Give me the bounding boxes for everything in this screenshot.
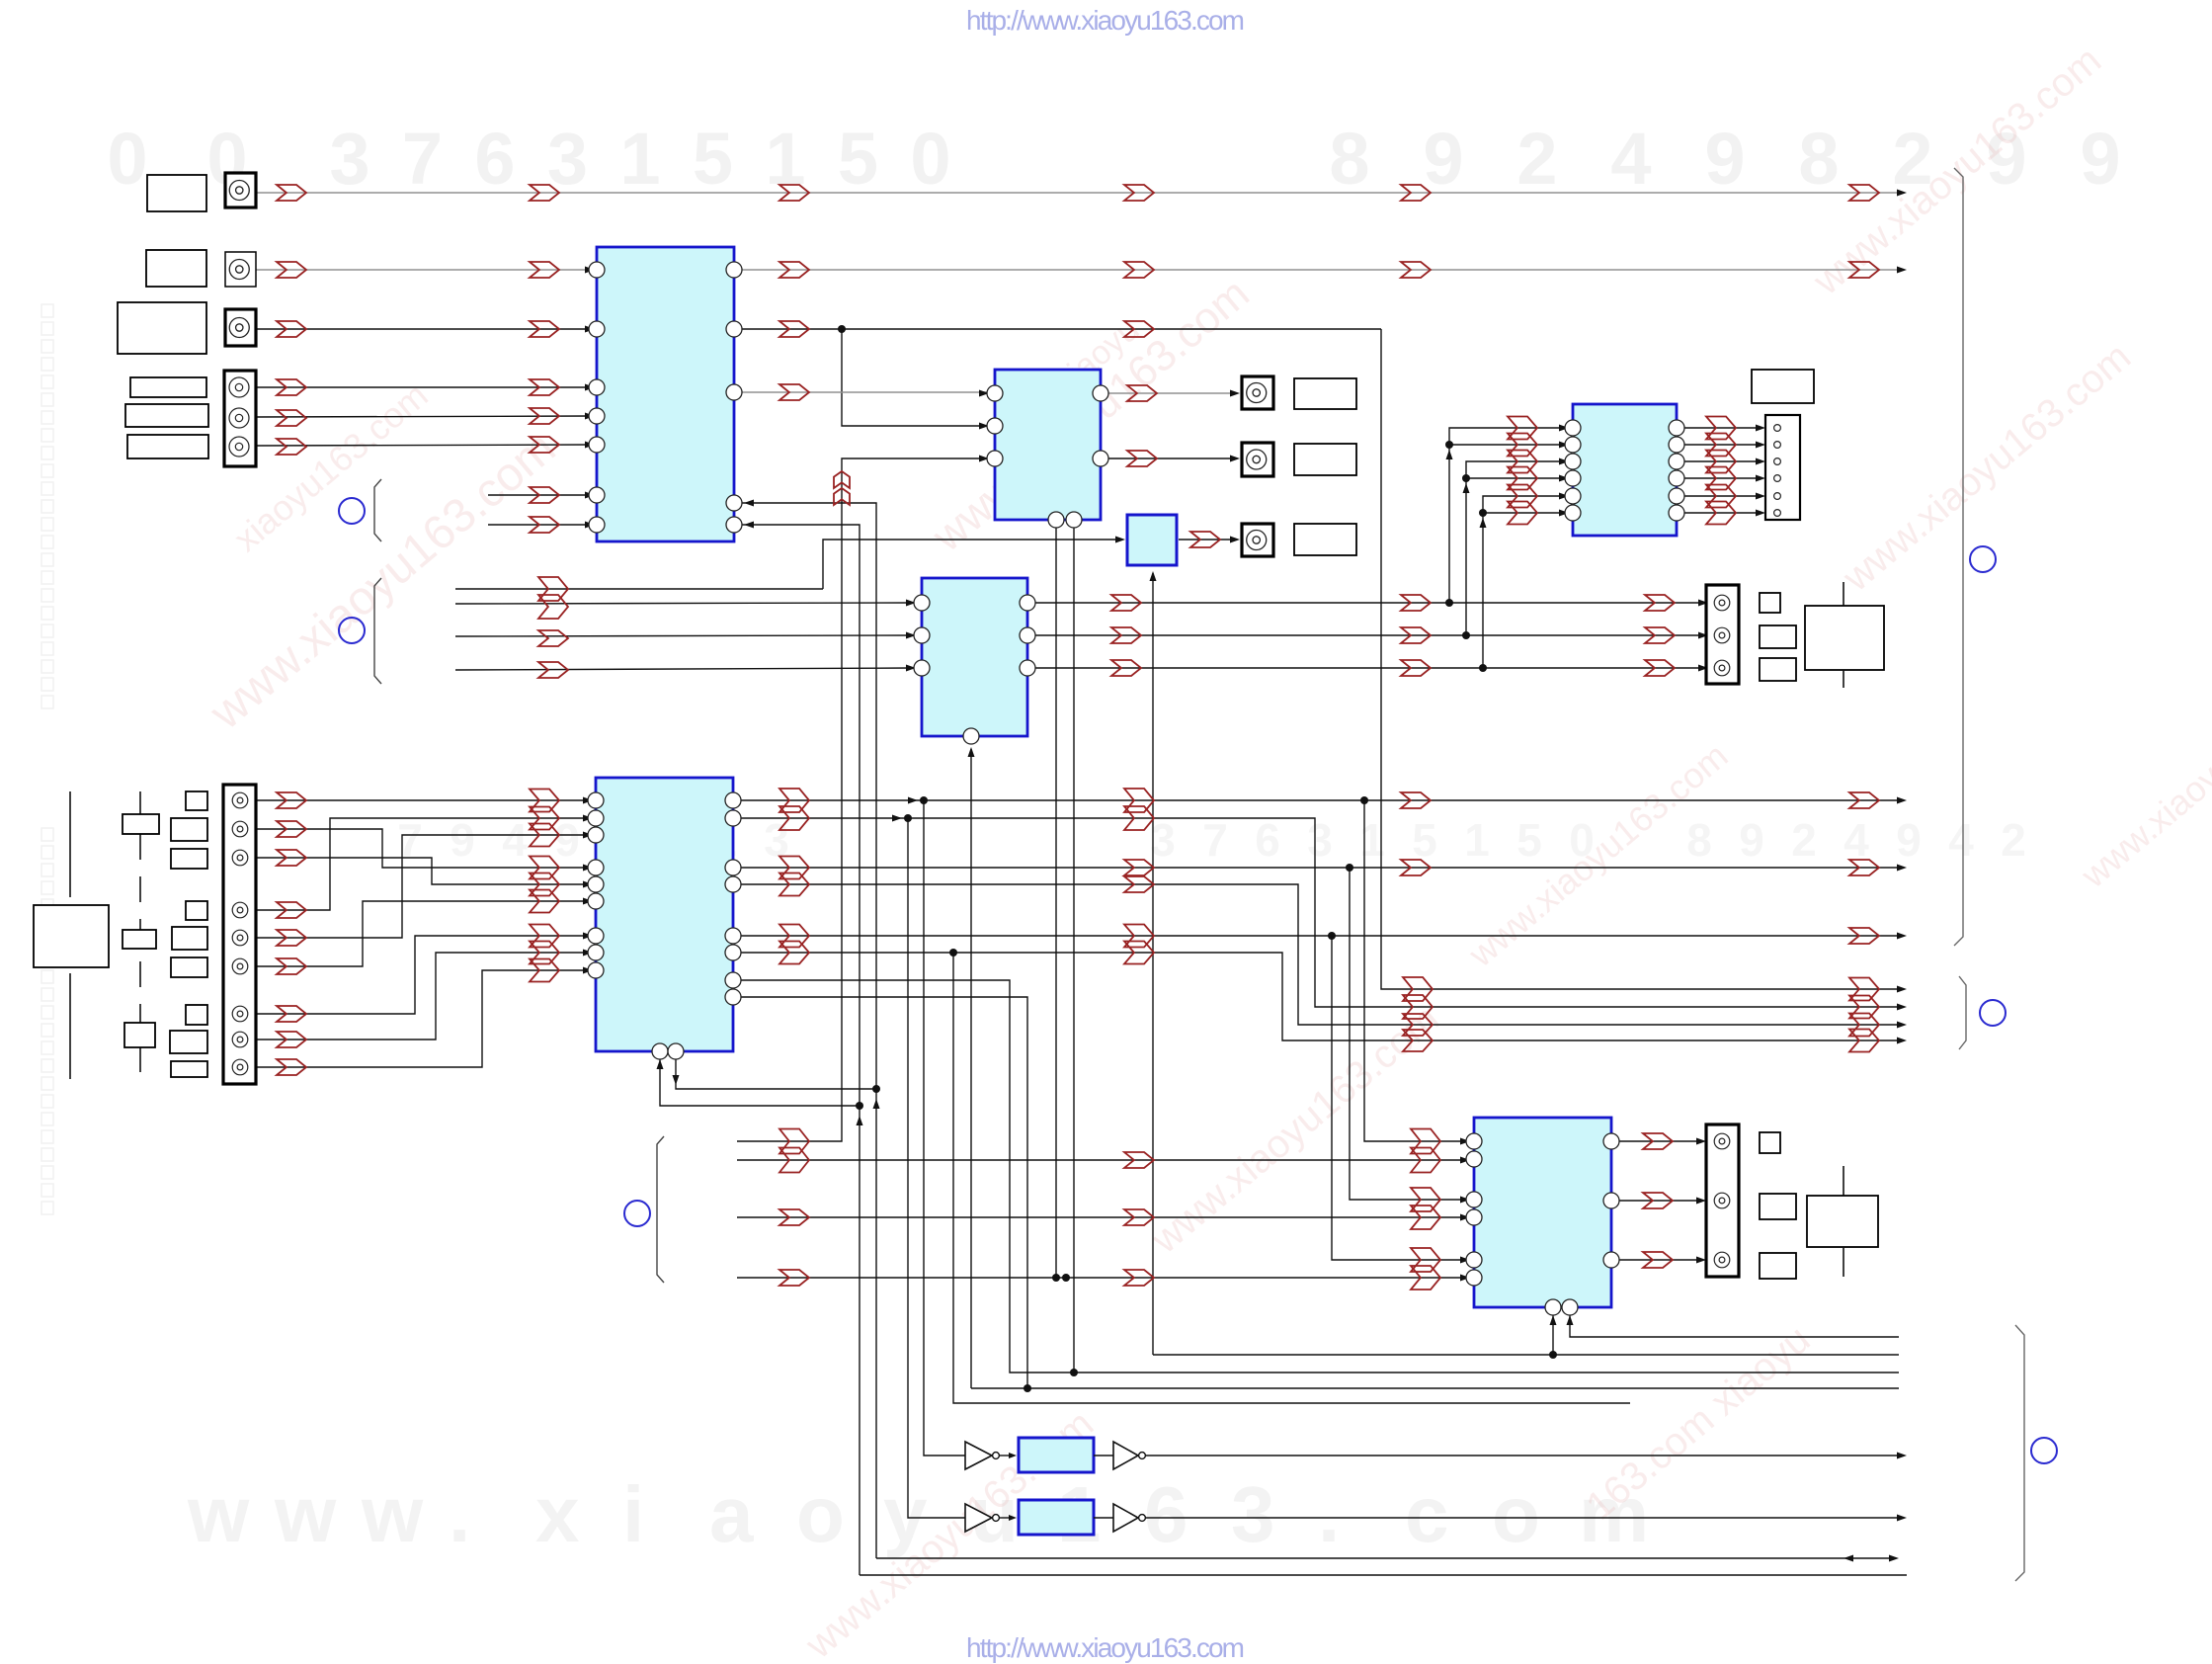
connector block CN (9 RCA) <box>223 785 256 1084</box>
svg-text:5: 5 <box>1412 814 1437 866</box>
chevrons into IC7 x1428 <box>1411 1129 1440 1154</box>
chevrons column mid rails (x545) <box>538 577 568 601</box>
inverter pair row1 <box>965 1442 992 1469</box>
jack J1 <box>225 173 256 208</box>
delay block 1 <box>1019 1438 1094 1472</box>
wire IC2 out bottom to jack <box>1108 458 1232 459</box>
wire IC7 input rails <box>737 1159 1464 1161</box>
chevrons before RCA group1 x1667 <box>1645 595 1675 611</box>
svg-text:9: 9 <box>1423 118 1463 200</box>
RCA group2 block <box>1706 1124 1739 1277</box>
white rect above terminal strip <box>1752 370 1814 403</box>
chevrons on IC3-right rails x1418 and x1125 <box>1401 595 1431 611</box>
svg-text:7: 7 <box>1202 814 1228 866</box>
connector ref A <box>339 498 365 524</box>
wire IC4 bottom pin links <box>660 1059 860 1106</box>
svg-text:9: 9 <box>2080 118 2120 200</box>
svg-text:3: 3 <box>1150 814 1176 866</box>
chevrons right end column x1875 <box>1849 185 1879 201</box>
label box row1 <box>147 175 206 211</box>
wire row3 out of IC1 to corner <box>742 328 1381 330</box>
jack J2 <box>225 252 256 287</box>
inverter pair row2 <box>965 1504 992 1532</box>
wire rail 1001 from x1398 vertical <box>1381 329 1899 989</box>
connector ref B <box>339 618 365 643</box>
wire rail y644 to IC3 <box>455 635 912 636</box>
wire rail y678 to IC3 <box>455 668 912 670</box>
svg-text:8: 8 <box>1686 814 1712 866</box>
jack J3 <box>225 309 256 346</box>
wire bottom rails 1577 1594 <box>876 1557 1889 1559</box>
svg-text:3: 3 <box>1307 814 1333 866</box>
svg-text:w: w <box>274 1470 337 1558</box>
delay block 2 <box>1019 1500 1094 1535</box>
wire row1 gray rail <box>256 192 1899 194</box>
small rects column A <box>123 814 159 834</box>
wire IC1 pin509 elbow down x887 <box>742 503 876 1558</box>
svg-text:4: 4 <box>1843 814 1869 866</box>
svg-text:9: 9 <box>1704 118 1745 200</box>
svg-text:http://www.xiaoyu163.com: http://www.xiaoyu163.com <box>966 1632 1245 1663</box>
watermark gray vertical chinese columns far left <box>41 304 53 708</box>
svg-text:a: a <box>709 1470 754 1558</box>
wire IC6 feeders <box>1449 428 1563 603</box>
chevrons IC7 out x1665 <box>1643 1133 1673 1149</box>
wire row2 gray: jack to IC1 <box>256 269 591 271</box>
terminal strip right of IC6 <box>1765 415 1800 520</box>
chevrons into IC6 x1526 <box>1508 417 1537 440</box>
wire branch row3 to IC2 pin2 <box>842 329 987 426</box>
svg-text:2: 2 <box>2001 814 2026 866</box>
wire IC6 outputs to terminal strip <box>1684 427 1758 429</box>
wire IC4 right rails <box>741 799 1899 801</box>
wire feeders to inverters <box>908 818 965 1518</box>
wire IC3 right rails to RCA group1 <box>1035 602 1700 604</box>
IC U1 <box>597 247 734 541</box>
svg-text:9: 9 <box>1739 814 1764 866</box>
small rects column B <box>186 791 207 810</box>
label box row3 <box>118 302 206 354</box>
connector ref E <box>1980 1000 2006 1026</box>
wire RCA group1 to IC1 pins <box>256 386 591 388</box>
connector ref C <box>624 1201 650 1226</box>
svg-text:1: 1 <box>1464 814 1490 866</box>
jacks right of IC2 <box>1242 376 1273 409</box>
svg-text:5: 5 <box>838 118 878 200</box>
braces and page connectors <box>374 479 381 541</box>
label box row2 <box>146 250 206 287</box>
svg-text:0: 0 <box>107 118 147 200</box>
svg-text:3: 3 <box>1231 1470 1275 1558</box>
wire IC4 inputs from connector with jogs <box>256 799 589 801</box>
wire row3 jack to IC1 <box>256 328 591 330</box>
chevrons column C (x789) <box>779 185 809 201</box>
svg-text:o: o <box>1492 1470 1540 1558</box>
svg-text:6: 6 <box>1144 1470 1188 1558</box>
chevron up on x852 vertical (double) <box>834 471 850 488</box>
wire row2 gray out of IC1 <box>742 269 1899 271</box>
svg-text:9: 9 <box>1896 814 1922 866</box>
chevrons column A (x280) singles <box>277 185 306 201</box>
watermark gray digits top row <box>107 118 2120 200</box>
svg-text:9: 9 <box>450 814 475 866</box>
label boxes rows 4-6 <box>130 377 206 397</box>
svg-text:8: 8 <box>1798 118 1839 200</box>
svg-text:i: i <box>622 1470 644 1558</box>
svg-text:8: 8 <box>1329 118 1369 200</box>
svg-text:2: 2 <box>1516 118 1557 200</box>
chevrons IC6 out x1730 <box>1706 417 1736 440</box>
wire IC2 out top gray to jack <box>1108 392 1232 394</box>
watermark gray digits middle row <box>397 814 2026 866</box>
svg-text:0: 0 <box>910 118 950 200</box>
wire rail y596 to IC5 input via corner <box>455 588 823 590</box>
IC U5 <box>1127 515 1177 565</box>
RCA block top (3 jacks) <box>224 371 256 466</box>
svg-text:1: 1 <box>765 118 805 200</box>
IC U7 <box>1474 1118 1611 1307</box>
svg-text:x: x <box>535 1470 580 1558</box>
chevrons column B (x536) <box>530 185 559 201</box>
wire IC7 bottom pins down <box>1552 1315 1554 1355</box>
chevrons after IC2/IC5 (x1141,x1208) <box>1127 385 1157 401</box>
svg-text:4: 4 <box>502 814 528 866</box>
svg-text:c: c <box>1405 1470 1449 1558</box>
IC U4 <box>596 778 733 1051</box>
wire IC7 feed verticals <box>1332 936 1464 1260</box>
IC U6 <box>1573 404 1677 536</box>
left lower area: vertical line + big square <box>69 791 71 897</box>
small boxes right of group2 <box>1760 1132 1780 1153</box>
connector ref D <box>1970 546 1996 572</box>
wire inputs to IC1 pins 501 531 <box>488 494 591 496</box>
connector ref F <box>2031 1438 2057 1463</box>
wire IC2 bottom pin verticals <box>1055 528 1057 1278</box>
svg-text:4: 4 <box>1948 814 1974 866</box>
wire vertical x965 to rail1420 <box>953 953 1630 1403</box>
svg-text:6: 6 <box>1255 814 1280 866</box>
wire IC5 out to jack <box>1179 539 1232 541</box>
svg-text:6: 6 <box>474 118 515 200</box>
svg-text:3: 3 <box>329 118 369 200</box>
chevrons column D (x1138) <box>1124 185 1154 201</box>
svg-text:2: 2 <box>1791 814 1817 866</box>
chevrons column E x1418 <box>1401 185 1431 201</box>
wire IC3 bottom feed vertical x983 <box>970 749 972 1388</box>
crystal X1 <box>1843 582 1844 606</box>
svg-text:5: 5 <box>693 118 733 200</box>
wire IC5 bottom feed vertical x1167 <box>1152 573 1154 1355</box>
RCA group1 block <box>1706 585 1739 684</box>
wire IC1 out gray to IC2 pin1 <box>742 391 987 393</box>
svg-text:7: 7 <box>402 118 443 200</box>
svg-text:5: 5 <box>1516 814 1542 866</box>
svg-text:.: . <box>1318 1470 1340 1558</box>
svg-text:w: w <box>361 1470 424 1558</box>
wire inverter output rails <box>1146 1455 1899 1456</box>
svg-text:9: 9 <box>554 814 580 866</box>
wire IC2 pin3 from below via x852 <box>737 458 987 1141</box>
svg-text:.: . <box>449 1470 470 1558</box>
svg-text:o: o <box>796 1470 845 1558</box>
IC U2 <box>995 370 1101 520</box>
wire IC7 outputs to RCA group2 <box>1619 1140 1698 1142</box>
small boxes right of group1 <box>1760 593 1780 613</box>
watermark gray www.xiaoyu163.com bottom row <box>187 1470 1649 1558</box>
svg-text:1: 1 <box>619 118 660 200</box>
svg-text:w: w <box>187 1470 250 1558</box>
IC U3 <box>922 578 1027 736</box>
crystal X2 <box>1843 1166 1844 1196</box>
wire rail y1371 <box>1153 1354 1899 1356</box>
wire rail y611 to IC3 <box>455 603 912 604</box>
wire IC1 pin531 elbow down x870 <box>742 525 860 1575</box>
dashed vertical line <box>139 791 141 1079</box>
svg-text:http://www.xiaoyu163.com: http://www.xiaoyu163.com <box>966 5 1245 36</box>
svg-text:4: 4 <box>1610 118 1651 200</box>
